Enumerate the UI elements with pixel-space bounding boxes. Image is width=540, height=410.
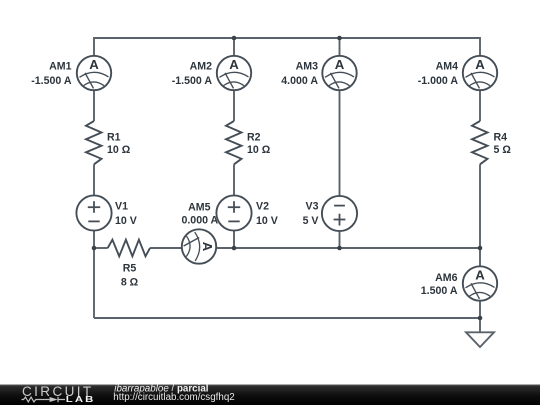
svg-text:http://circuitlab.com/csgfhq2: http://circuitlab.com/csgfhq2 — [113, 392, 234, 403]
label R2 — [247, 131, 271, 156]
ammeter AM1 — [77, 56, 111, 90]
voltage source V1 — [76, 195, 111, 230]
resistor R2 — [226, 121, 242, 164]
label AM6 — [421, 272, 458, 297]
wire AM2 top stem — [233, 37, 235, 56]
wire AM4 to R4 — [479, 90, 481, 121]
svg-text:-1.500 A: -1.500 A — [31, 75, 72, 87]
svg-text:A: A — [200, 242, 215, 252]
node node C — [337, 246, 342, 251]
svg-text:V3: V3 — [306, 201, 319, 213]
ammeter AM5 — [182, 229, 216, 263]
label R5 — [121, 262, 139, 288]
resistor R4 — [472, 121, 488, 164]
wire bottom bus — [94, 317, 480, 319]
svg-text:5 V: 5 V — [303, 215, 319, 227]
node junction top AM3 — [337, 36, 342, 41]
label R4 — [494, 131, 512, 156]
label V3 — [303, 201, 319, 227]
ammeter AM2 — [217, 56, 251, 90]
ammeter AM6 — [463, 266, 497, 300]
svg-text:R4: R4 — [494, 131, 508, 143]
node node B — [232, 246, 237, 251]
label AM2 — [172, 61, 213, 87]
ground — [466, 332, 494, 347]
voltage source V3 — [322, 196, 357, 231]
wire AM6 to node E — [479, 301, 481, 318]
svg-text:V2: V2 — [256, 201, 269, 213]
svg-text:10 V: 10 V — [115, 215, 137, 227]
wire V2 to node B — [233, 231, 235, 248]
svg-text:4.000 A: 4.000 A — [281, 75, 318, 87]
node node D — [478, 246, 483, 251]
label R1 — [107, 131, 131, 156]
wire mid bus node C to D — [340, 247, 481, 249]
svg-text:8 Ω: 8 Ω — [121, 276, 139, 288]
label V2 — [256, 201, 278, 227]
ammeter AM4 — [463, 56, 497, 90]
svg-text:0.000 A: 0.000 A — [181, 215, 218, 227]
wire AM5 to node B — [216, 247, 234, 249]
wire AM1 to R1 — [93, 90, 95, 121]
label AM3 — [281, 61, 318, 87]
svg-text:AM3: AM3 — [296, 61, 318, 73]
wire AM2 to R2 — [233, 90, 235, 121]
svg-text:AM4: AM4 — [436, 61, 458, 73]
svg-text:10 Ω: 10 Ω — [247, 144, 271, 156]
svg-text:AM5: AM5 — [188, 201, 210, 213]
svg-text:A: A — [475, 57, 485, 72]
ammeter AM3 — [322, 56, 356, 90]
wire left vertical — [93, 248, 95, 318]
node junction top AM2 — [232, 36, 237, 41]
svg-text:AM1: AM1 — [49, 61, 71, 73]
svg-text:A: A — [229, 57, 239, 72]
node node A — [92, 246, 97, 251]
footer bar — [0, 385, 540, 406]
svg-text:10 V: 10 V — [256, 215, 278, 227]
svg-text:R1: R1 — [107, 131, 121, 143]
svg-text:AM2: AM2 — [190, 61, 212, 73]
wire top bus — [94, 37, 480, 39]
CircuitLab logo resistor-diode glyph — [22, 397, 66, 402]
svg-text:LAB: LAB — [66, 395, 96, 404]
svg-text:A: A — [475, 268, 485, 283]
svg-text:AM6: AM6 — [435, 272, 457, 284]
wire AM1 top stem — [93, 37, 95, 56]
svg-text:A: A — [335, 57, 345, 72]
svg-text:-1.500 A: -1.500 A — [172, 75, 213, 87]
node node E — [478, 316, 483, 321]
label AM4 — [418, 61, 459, 87]
voltage source V2 — [216, 195, 251, 230]
wire R5 to AM5 — [150, 247, 182, 249]
wire mid bus node B to C — [234, 247, 340, 249]
label AM1 — [31, 61, 72, 87]
resistor R1 — [86, 121, 102, 164]
wire R1 to V1 — [93, 164, 95, 195]
wire V1 to node A — [93, 231, 95, 248]
svg-text:10 Ω: 10 Ω — [107, 144, 131, 156]
wire R4 to node D — [479, 164, 481, 248]
svg-text:A: A — [89, 57, 99, 72]
svg-text:V1: V1 — [115, 201, 128, 213]
wire AM4 top stem — [479, 37, 481, 56]
svg-text:1.500 A: 1.500 A — [421, 285, 458, 297]
wire V3 to node C — [339, 231, 341, 248]
svg-text:5 Ω: 5 Ω — [494, 144, 512, 156]
wire AM3 to V3 — [339, 90, 341, 195]
svg-text:-1.000 A: -1.000 A — [418, 75, 459, 87]
wire R2 to V2 — [233, 164, 235, 195]
wire node A to R5 — [94, 247, 108, 249]
label AM5 name — [188, 201, 210, 213]
label V1 — [115, 201, 137, 227]
resistor R5 — [108, 240, 150, 257]
wire node D to AM6 — [479, 248, 481, 266]
wire ground stem — [479, 318, 481, 332]
wire AM3 top stem — [339, 37, 341, 56]
svg-text:R2: R2 — [247, 131, 261, 143]
svg-text:R5: R5 — [123, 262, 137, 274]
label AM5 value — [181, 215, 218, 227]
